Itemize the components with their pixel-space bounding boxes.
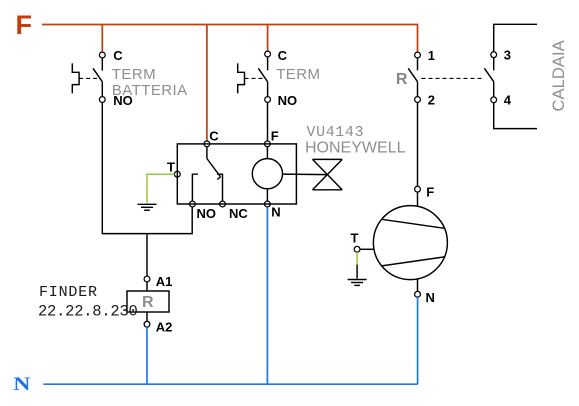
wire drop F rail to valve C (orange) (206, 25, 208, 142)
wire pump N to N rail (blue) (417, 297, 419, 384)
svg-text:NO: NO (278, 93, 298, 108)
svg-text:T: T (167, 159, 175, 174)
wire valve N to N rail (blue) (266, 207, 268, 384)
svg-text:R: R (396, 71, 408, 88)
valve terminals (174, 141, 270, 207)
relay contact R (1-2) (408, 52, 420, 102)
svg-text:NC: NC (229, 206, 248, 221)
dashed mechanical link R to boiler contact (422, 77, 483, 79)
svg-text:2: 2 (428, 92, 435, 107)
svg-text:FINDER: FINDER (39, 284, 98, 301)
wire drop F rail to TERM BATTERIA C (orange) (101, 25, 103, 53)
wire F rail (orange) (42, 25, 418, 53)
boiler contact (3-4) with connection stubs (484, 24, 537, 128)
svg-text:N: N (426, 290, 435, 305)
svg-text:C: C (113, 48, 123, 63)
ground (pump T) (348, 280, 367, 286)
wire valve T to ground (green) (147, 174, 174, 203)
wire R contact 2 down to pump F (417, 102, 419, 186)
pump / circulator (354, 186, 447, 297)
wire TERM NO down to valve F (267, 102, 269, 141)
svg-text:T: T (351, 230, 359, 245)
svg-text:A1: A1 (156, 274, 173, 289)
valve internal changeover contact (192, 147, 222, 202)
svg-text:F: F (271, 128, 279, 143)
svg-text:TERM: TERM (276, 66, 320, 83)
wire A2 to N rail (blue) (146, 327, 148, 384)
valve unit VU4143 box (177, 144, 296, 204)
thermostat switch TERM BATTERIA (72, 52, 105, 102)
svg-text:22.22.8.230: 22.22.8.230 (38, 303, 138, 321)
svg-text:BATTERIA: BATTERIA (112, 82, 188, 99)
svg-text:C: C (209, 128, 219, 143)
relay coil R (FINDER) (127, 276, 169, 327)
wire pump T to ground (green then black) (356, 252, 358, 264)
svg-text:N: N (13, 373, 31, 394)
svg-text:NO: NO (197, 206, 217, 221)
valve body symbol (bowtie) (283, 159, 343, 189)
svg-text:CALDAIA: CALDAIA (550, 40, 568, 111)
wire TERM BATTERIA NO down to junction (102, 102, 192, 233)
svg-text:R: R (142, 294, 154, 311)
svg-text:HONEYWELL: HONEYWELL (305, 140, 406, 157)
ground (valve T) (138, 204, 157, 210)
svg-text:VU4143: VU4143 (307, 124, 365, 141)
svg-text:F: F (16, 10, 33, 40)
svg-text:3: 3 (504, 48, 511, 63)
valve motor (252, 147, 282, 202)
svg-text:C: C (278, 48, 288, 63)
svg-text:N: N (271, 205, 280, 220)
wire drop F rail to TERM C (orange) (267, 25, 269, 52)
svg-text:1: 1 (428, 48, 435, 63)
svg-text:TERM: TERM (112, 66, 156, 83)
thermostat switch TERM (238, 51, 271, 102)
svg-text:A2: A2 (156, 320, 173, 335)
svg-text:4: 4 (504, 93, 512, 108)
wire junction to relay coil A1 (146, 234, 148, 277)
N neutral rail (blue) (43, 383, 417, 385)
svg-text:F: F (426, 184, 434, 199)
